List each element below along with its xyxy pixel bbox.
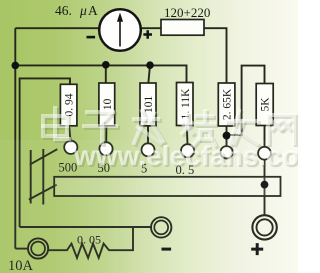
svg-text:10: 10 bbox=[102, 98, 114, 110]
svg-text:46.: 46. bbox=[55, 3, 72, 18]
svg-text:μ: μ bbox=[79, 3, 87, 18]
svg-text:A: A bbox=[88, 3, 98, 18]
svg-text:120+220: 120+220 bbox=[164, 5, 210, 20]
svg-text:5K: 5K bbox=[260, 97, 272, 112]
svg-text:0. 94: 0. 94 bbox=[64, 93, 76, 116]
svg-text:2. 65K: 2. 65K bbox=[222, 88, 234, 120]
svg-text:www.elecfans.com: www.elecfans.com bbox=[73, 140, 298, 171]
